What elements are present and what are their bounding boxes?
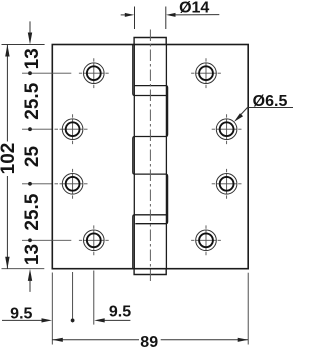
chain dot row2 [28, 127, 32, 131]
chain dimension top arrow [29, 21, 31, 34]
svg-text:Ø14: Ø14 [179, 0, 209, 17]
dim Ø14 right extension [165, 7, 167, 30]
hole L4 [79, 225, 109, 255]
dim Ø14 left arrow [121, 14, 127, 16]
hole row extension line y73 [22, 72, 71, 74]
top extension line y44.5 [2, 44, 45, 46]
dim 9.5 middle line and arrow [101, 319, 130, 321]
svg-text:25.5: 25.5 [22, 82, 43, 119]
hole L2 [55, 114, 88, 144]
svg-text:25: 25 [22, 146, 43, 168]
barrel right inner edge [165, 45, 167, 269]
bottom ext line hole col1 [72, 272, 74, 323]
dim Ø14 right arrow and leader [172, 14, 219, 16]
dim 89 line [52, 339, 139, 341]
hole R3 [212, 169, 242, 199]
svg-text:102: 102 [0, 143, 19, 175]
bottom ext line right edge x248 [247, 273, 249, 345]
hole R4 [191, 225, 221, 255]
dim Ø6.5 slanted leader [237, 107, 248, 119]
hole row extension line y240 [22, 239, 71, 241]
dim Ø6.5 leader shelf [247, 107, 293, 109]
chain dot row1 [28, 71, 32, 75]
barrel left inner edge [133, 45, 135, 269]
knuckle bottom cap [134, 269, 166, 275]
hole R2 [212, 114, 242, 144]
dim Ø6.5 arrow [234, 113, 243, 122]
svg-text:13: 13 [22, 48, 43, 69]
svg-text:9.5: 9.5 [10, 305, 32, 322]
dim 89 left arrow [52, 338, 63, 342]
dimension 102 bottom arrow [5, 257, 9, 269]
hinge leaf body outline [52, 45, 248, 269]
hole row extension line y129 [22, 128, 52, 130]
dim 89 right arrow [238, 338, 249, 342]
hole row extension line y184 [22, 183, 52, 185]
hole L1 [79, 58, 109, 88]
knuckle top cap [134, 38, 166, 45]
knuckle joint y214.8 with curl to bottom [133, 215, 167, 269]
svg-text:Ø6.5: Ø6.5 [253, 93, 288, 110]
chain dot row4 [28, 238, 32, 242]
dim 9.5 middle dot [71, 319, 75, 323]
knuckle joint S-lines y85.6 to y223.7 [133, 86, 168, 224]
dim Ø14 left extension [134, 7, 136, 30]
hole L3 [55, 169, 88, 199]
chain dimension bottom arrow [29, 278, 31, 292]
svg-text:25.5: 25.5 [22, 193, 43, 230]
hole R1 [191, 58, 221, 88]
dim 9.5 left line and arrow [2, 319, 44, 321]
barrel centerline [149, 30, 151, 284]
bottom ext line left edge x52 [51, 273, 53, 345]
chain dot row3 [28, 182, 32, 186]
bottom extension line y268.7 [2, 268, 45, 270]
knuckle curl left top, joint line y95.5 [133, 45, 167, 96]
svg-text:9.5: 9.5 [109, 303, 131, 320]
svg-text:13: 13 [22, 244, 43, 265]
dimension 102 line [6, 45, 8, 142]
dimension 102 top arrow [5, 45, 9, 57]
svg-text:89: 89 [140, 334, 158, 350]
bottom ext line hole col2 [93, 271, 95, 325]
